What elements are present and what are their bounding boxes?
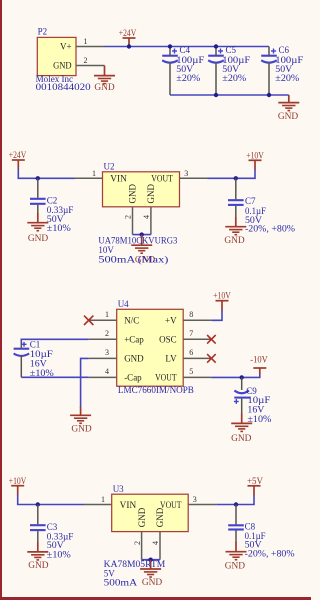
U4 pin 4 stub (89, 376, 117, 378)
power port -10V (250, 356, 268, 374)
svg-text:±20%: ±20% (176, 73, 201, 83)
svg-text:GND: GND (224, 236, 245, 246)
svg-text:U2: U2 (104, 161, 115, 171)
U2 pin 3 stub (180, 177, 208, 179)
value label C2 (47, 195, 74, 233)
wire U4 GND pin to ground (81, 358, 89, 407)
svg-text:6: 6 (189, 348, 193, 357)
no connect X on pin 6 (207, 354, 216, 363)
svg-text:1: 1 (101, 495, 105, 504)
ground symbol below C2 (27, 213, 48, 244)
wire U3 VOUT to +5V (216, 495, 254, 505)
svg-text:GND: GND (124, 354, 144, 364)
wire ground rail bottom (170, 94, 289, 96)
svg-text:UA78M10CKVURG3: UA78M10CKVURG3 (98, 236, 177, 246)
U3 pin number 4 (rotated) (151, 541, 160, 545)
U2 pin name GND (pin4, rotated) (146, 184, 156, 204)
svg-text:U3: U3 (113, 484, 124, 494)
U4 pin 5 stub (183, 376, 211, 378)
U2 part number labels (98, 236, 177, 265)
svg-text:8: 8 (189, 310, 193, 319)
svg-text:+10V: +10V (246, 151, 264, 161)
regulator U3 body (112, 494, 189, 531)
svg-text:GND: GND (128, 184, 138, 204)
U4 pin 6 stub (183, 357, 211, 359)
power port +10V left (9, 477, 27, 495)
svg-text:GND: GND (231, 434, 252, 444)
U3 pin name GND (pin4, rotated) (155, 507, 165, 527)
svg-text:+5V: +5V (247, 477, 263, 487)
U4 pin name +Cap (124, 335, 144, 345)
svg-text:KA78M05RTM: KA78M05RTM (104, 559, 166, 569)
U2 pin 2 stub (132, 207, 134, 235)
wire U4 VOUT to -10V (211, 374, 260, 378)
no connect X on pin 7 (207, 335, 216, 344)
U2 pin name VOUT (151, 174, 173, 184)
junction at +24V stem (127, 44, 131, 48)
wire U2 VOUT to +10V (208, 169, 256, 178)
U2 pin 4 stub (150, 207, 152, 235)
svg-text:VOUT: VOUT (151, 174, 173, 184)
wire U4 +V to +10V (211, 310, 222, 320)
ground symbol right of C6 (278, 95, 299, 122)
svg-text:1: 1 (105, 310, 109, 319)
power port +10V (section 3) (213, 292, 231, 311)
svg-text:+10V: +10V (213, 292, 231, 302)
svg-text:-Cap: -Cap (124, 373, 142, 383)
svg-text:-10V: -10V (250, 356, 268, 366)
ground symbol below C3 (27, 542, 48, 571)
wire from +10V to U3 VIN (18, 495, 84, 505)
value label C1 (30, 339, 55, 378)
ground symbol below P2 pin 2 (94, 66, 115, 94)
connector P2 body (37, 37, 76, 75)
svg-text:±10%: ±10% (30, 368, 55, 378)
svg-text:C3: C3 (47, 522, 58, 532)
U3 pin name VOUT (160, 500, 182, 510)
svg-text:+24V: +24V (119, 29, 137, 39)
P2 pin 1 stub (76, 46, 105, 48)
svg-text:-20%, +80%: -20%, +80% (245, 224, 296, 234)
power port +24V left (9, 151, 27, 169)
svg-text:VOUT: VOUT (155, 373, 177, 383)
junction at C3 top (36, 502, 40, 506)
svg-text:GND: GND (28, 561, 49, 571)
svg-text:±20%: ±20% (275, 73, 300, 83)
wire from +24V to U2 VIN (18, 169, 75, 179)
capacitor C9 (234, 377, 250, 414)
junction at U2 ground (140, 232, 144, 236)
capacitor C5 (208, 47, 224, 96)
regulator U2 body (103, 172, 180, 207)
value label C4 (176, 45, 204, 83)
wire joining U3 ground pins (142, 559, 160, 561)
svg-text:4: 4 (105, 367, 109, 376)
no connect X on pin 1 (84, 316, 93, 325)
svg-text:VIN: VIN (110, 174, 127, 184)
svg-text:LMC7660IM/NOPB: LMC7660IM/NOPB (118, 385, 194, 395)
wire U4 +Cap to C1 (21, 339, 88, 343)
junction at C6 bottom (267, 93, 271, 97)
svg-text:+Cap: +Cap (124, 335, 144, 345)
ground symbol below C9 (231, 414, 252, 445)
svg-text:7: 7 (189, 329, 193, 338)
sheet border bottom (0, 597, 311, 600)
junction at C8 top (234, 502, 238, 506)
U2 pin number 4 (rotated) (142, 215, 151, 219)
capacitor C7 (228, 178, 244, 218)
svg-text:GND: GND (155, 507, 165, 527)
svg-text:2: 2 (124, 215, 133, 219)
svg-text:2: 2 (84, 56, 88, 65)
value label C5 (222, 45, 250, 83)
power port +10V (section 2) (246, 151, 264, 169)
value label C8 (245, 522, 296, 559)
U4 pin 1 stub (89, 319, 117, 321)
U4 pin name LV (165, 354, 177, 364)
svg-text:P2: P2 (38, 27, 48, 37)
ground symbol below C8 (225, 542, 247, 571)
svg-text:C8: C8 (245, 522, 256, 532)
value label C7 (245, 196, 296, 234)
U4 pin 3 stub (89, 357, 117, 359)
U3 pin name VIN (120, 500, 137, 510)
value label C3 (47, 522, 74, 560)
svg-text:±10%: ±10% (47, 223, 72, 233)
U4 pin name +V (165, 316, 177, 326)
P2 pin number 1 (84, 37, 88, 46)
svg-text:+24V: +24V (9, 151, 27, 161)
designator U3 (113, 484, 124, 494)
designator P2 (38, 27, 48, 37)
svg-text:OSC: OSC (159, 335, 177, 345)
ground symbol below U3 (140, 560, 162, 588)
U4 pin number 8 (189, 310, 193, 319)
U3 pin 3 stub (188, 504, 216, 506)
capacitor C4 (162, 47, 178, 96)
U3 pin number 3 (193, 495, 197, 504)
svg-text:C5: C5 (226, 45, 237, 55)
U4 pin name VOUT (155, 373, 177, 383)
U4 pin number 6 (189, 348, 193, 357)
P2 manufacturer label (36, 74, 92, 92)
svg-text:+10V: +10V (9, 477, 27, 487)
U4 pin number 7 (189, 329, 193, 338)
svg-text:3: 3 (193, 495, 197, 504)
svg-text:GND: GND (225, 561, 246, 571)
svg-text:4: 4 (151, 541, 160, 545)
junction at C9 top (240, 375, 244, 379)
svg-text:GND: GND (28, 234, 49, 244)
value label C9 (246, 386, 272, 424)
capacitor C3 (30, 505, 46, 544)
svg-text:5: 5 (189, 367, 193, 376)
svg-text:1: 1 (92, 169, 96, 178)
junction at C7 top (234, 176, 238, 180)
svg-text:C2: C2 (47, 195, 58, 205)
P2 pin name GND (53, 60, 72, 70)
wire +24V rail top (105, 46, 270, 48)
svg-text:GND: GND (146, 184, 156, 204)
svg-text:C4: C4 (180, 45, 191, 55)
svg-text:GND: GND (278, 112, 299, 122)
svg-text:2: 2 (105, 329, 109, 338)
U3 pin name GND (pin2, rotated) (137, 507, 147, 527)
junction at U3 ground (148, 558, 152, 562)
U3 pin number 2 (rotated) (133, 541, 142, 545)
junction at C2 top (36, 176, 40, 180)
svg-text:3: 3 (105, 348, 109, 357)
svg-text:GND: GND (137, 507, 147, 527)
U4 pin name N/C (124, 316, 139, 326)
svg-text:1: 1 (84, 37, 88, 46)
svg-text:U4: U4 (118, 299, 129, 309)
junction at C4 top (168, 44, 172, 48)
value label C6 (275, 45, 303, 83)
U4 pin number 4 (105, 367, 109, 376)
svg-text:C1: C1 (30, 339, 41, 349)
U2 pin name VIN (110, 174, 127, 184)
svg-text:LV: LV (165, 354, 177, 364)
U4 pin 2 stub (89, 338, 117, 340)
svg-text:+V: +V (165, 316, 177, 326)
sheet border left (0, 0, 2, 600)
U2 pin number 2 (rotated) (124, 215, 133, 219)
svg-text:C7: C7 (245, 196, 256, 206)
U3 pin 4 stub (159, 532, 161, 560)
ground symbol below C7 (224, 217, 246, 246)
svg-text:10µF: 10µF (30, 349, 53, 359)
svg-text:-20%, +80%: -20%, +80% (245, 548, 296, 558)
svg-text:GND: GND (53, 60, 72, 70)
svg-text:VIN: VIN (120, 500, 137, 510)
svg-text:4: 4 (142, 215, 151, 219)
svg-text:GND: GND (142, 578, 163, 588)
junction at C5 bottom (214, 93, 218, 97)
U4 pin number 5 (189, 367, 193, 376)
P2 pin number 2 (84, 56, 88, 65)
capacitor C2 (30, 178, 46, 214)
U2 pin name GND (pin2, rotated) (128, 184, 138, 204)
U4 pin number 1 (105, 310, 109, 319)
svg-text:50V: 50V (47, 540, 65, 550)
U4 pin number 2 (105, 329, 109, 338)
wire C1 bottom to U4 -Cap (21, 376, 88, 378)
capacitor C8 (228, 505, 244, 544)
ground symbol below U2 (131, 235, 155, 266)
svg-text:±10%: ±10% (47, 549, 72, 559)
designator U4 (118, 299, 129, 309)
U4 pin 8 stub (183, 319, 211, 321)
svg-text:500mA: 500mA (104, 578, 138, 588)
power port +24V (119, 29, 137, 47)
svg-text:500mA (Max): 500mA (Max) (98, 254, 168, 264)
U4 pin 7 stub (183, 338, 211, 340)
P2 pin 2 stub (76, 65, 105, 67)
U2 pin number 3 (184, 169, 188, 178)
svg-text:±20%: ±20% (222, 73, 247, 83)
designator U2 (104, 161, 115, 171)
svg-text:GND: GND (71, 425, 92, 435)
svg-text:2: 2 (133, 541, 142, 545)
U4 pin number 3 (105, 348, 109, 357)
U2 pin 1 stub (75, 177, 103, 179)
svg-text:N/C: N/C (124, 316, 139, 326)
wire joining U2 ground pins (133, 234, 151, 236)
power port +5V (247, 477, 263, 496)
svg-text:V+: V+ (60, 42, 72, 52)
svg-text:±10%: ±10% (247, 414, 272, 424)
svg-text:0010844020: 0010844020 (36, 82, 92, 92)
U3 pin 1 stub (84, 504, 112, 506)
U4 part number label (118, 385, 194, 395)
capacitor C6 (261, 47, 277, 96)
svg-text:GND: GND (94, 83, 115, 93)
U3 part number labels (104, 559, 166, 588)
U4 pin name OSC (159, 335, 177, 345)
P2 pin name V+ (60, 42, 72, 52)
svg-text:3: 3 (184, 169, 188, 178)
svg-text:C6: C6 (279, 45, 290, 55)
U4 pin name GND (124, 354, 144, 364)
ground symbol below U4 (70, 407, 92, 435)
U3 pin number 1 (101, 495, 105, 504)
capacitor C1 (14, 342, 30, 377)
U3 pin 2 stub (141, 532, 143, 560)
U4 pin name -Cap (124, 373, 142, 383)
svg-text:16V: 16V (30, 358, 48, 368)
junction at C5 top (214, 44, 218, 48)
U2 pin number 1 (92, 169, 96, 178)
charge pump U4 body (117, 309, 184, 386)
